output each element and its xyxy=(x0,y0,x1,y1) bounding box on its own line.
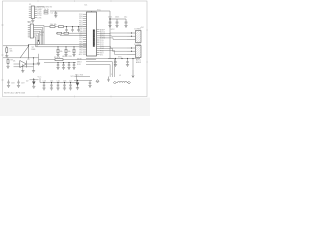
hanging cap 4 xyxy=(73,62,74,63)
bottom-left cap C19 xyxy=(17,80,19,86)
border frame xyxy=(3,1,148,97)
terminal block J3 xyxy=(136,31,142,43)
bottom-left cap C18 xyxy=(7,80,9,86)
svg-text:MISO: MISO xyxy=(77,61,82,63)
right rail wire xyxy=(108,58,140,60)
VCC wire xyxy=(74,79,92,81)
ground left cluster 1 xyxy=(22,64,24,71)
resistor R6 xyxy=(64,32,69,34)
net label text xyxy=(77,58,82,66)
J4 junction dots xyxy=(131,47,132,48)
test point diamond xyxy=(37,41,40,45)
wire VCC top xyxy=(50,10,110,12)
capacitor C12 xyxy=(89,80,91,85)
mid wire vertical left xyxy=(38,54,40,63)
polarized capacitor C11 xyxy=(76,80,79,85)
wire left top xyxy=(3,45,29,47)
hanging cap 1 xyxy=(57,62,58,63)
svg-text:C18: C18 xyxy=(11,83,14,85)
svg-text:10u: 10u xyxy=(124,17,127,19)
wire net top xyxy=(37,6,45,8)
U1 right pin stubs xyxy=(97,30,100,55)
svg-text:L1: L1 xyxy=(119,75,121,77)
svg-text:VCC: VCC xyxy=(71,76,76,78)
J3 wire from U1 xyxy=(100,33,128,39)
svg-text:1k 1k: 1k 1k xyxy=(44,9,49,11)
resistor R8 xyxy=(7,58,9,60)
J1 right pins xyxy=(35,7,37,18)
bus wire A xyxy=(36,44,87,46)
svg-text:NOTE: ALL CAPS 0603: NOTE: ALL CAPS 0603 xyxy=(4,92,26,95)
pullup row wire xyxy=(45,26,87,28)
bottom rail wire xyxy=(40,78,77,82)
svg-text:LED TX RX: LED TX RX xyxy=(62,56,72,58)
U1 internal part-name text (vertical) xyxy=(93,30,95,47)
svg-text:CTS: CTS xyxy=(37,17,42,19)
svg-text:AREF: AREF xyxy=(136,61,142,64)
resistor R9 xyxy=(55,59,63,61)
C1 ground xyxy=(54,16,57,18)
svg-text:C16: C16 xyxy=(63,80,66,82)
small comp right of caps xyxy=(107,77,109,83)
rail rise xyxy=(76,75,78,83)
svg-text:C19: C19 xyxy=(21,83,24,85)
J3 junction dots xyxy=(131,32,132,33)
svg-text:R8: R8 xyxy=(11,59,13,61)
svg-text:100n: 100n xyxy=(115,17,119,19)
antenna arrow xyxy=(132,70,134,78)
bottom cap 4 xyxy=(63,83,65,88)
capacitor C1 xyxy=(54,11,57,16)
right net stack text xyxy=(136,58,142,63)
pulldown dots xyxy=(57,46,58,47)
svg-text:XTL: XTL xyxy=(100,55,103,57)
cap drop 3 xyxy=(77,27,79,33)
connector J2 xyxy=(30,24,33,38)
wire cap rail xyxy=(110,18,126,20)
svg-text:R9 470: R9 470 xyxy=(54,57,60,59)
cap drop 2 xyxy=(71,27,73,33)
svg-text:VCC: VCC xyxy=(118,57,123,59)
U1 left pin label text xyxy=(79,14,84,56)
rail junction dots xyxy=(43,82,44,83)
connector J1 xyxy=(31,6,34,19)
rail dots xyxy=(115,58,116,59)
svg-text:C15: C15 xyxy=(57,80,60,82)
row2 wire xyxy=(56,32,87,34)
cap right 2 xyxy=(126,59,128,65)
J2 staircase wires xyxy=(34,26,45,47)
test point diamond 2 xyxy=(96,80,99,83)
svg-text:C14: C14 xyxy=(50,80,53,82)
wire vcc vertical bus xyxy=(109,11,111,59)
bottom cap 3 xyxy=(57,83,59,88)
pulldown network 2 xyxy=(65,47,67,49)
svg-text:SCL: SCL xyxy=(40,34,44,36)
pulldown network 1 xyxy=(57,47,59,49)
J3 wires xyxy=(127,33,136,39)
svg-text:VCC: VCC xyxy=(111,29,116,31)
capacitor C3 xyxy=(116,19,119,25)
mid lower wire xyxy=(44,62,76,64)
J4 wires xyxy=(127,48,136,54)
bottom cap labels text xyxy=(43,80,73,82)
J2 left pins xyxy=(28,26,30,37)
polarized capacitor C20 xyxy=(33,79,34,80)
resistor R1 xyxy=(44,11,48,12)
resistor R4 xyxy=(59,26,64,28)
wire left cluster low xyxy=(14,66,34,68)
pulldown network 3 xyxy=(73,47,75,49)
row3 wire xyxy=(60,34,87,36)
U1 top stub xyxy=(91,11,93,12)
J1 pin label text xyxy=(37,7,45,19)
junction node xyxy=(38,40,39,41)
resistor R2 xyxy=(44,13,48,14)
stub right xyxy=(132,59,134,71)
IC U1 xyxy=(87,12,97,56)
svg-text:10k: 10k xyxy=(10,51,13,53)
hanging cap 3 xyxy=(68,62,69,63)
junction on rail xyxy=(109,18,110,19)
ground under J1 xyxy=(32,19,34,21)
U1 left pin stubs xyxy=(83,14,87,54)
svg-text:VCC 3V3: VCC 3V3 xyxy=(75,75,83,77)
svg-text:D2: D2 xyxy=(26,81,28,83)
resistor R5 xyxy=(57,32,62,34)
wire to C20 xyxy=(30,79,39,81)
svg-text:C17: C17 xyxy=(69,80,72,82)
U1 right pin label text xyxy=(100,28,106,56)
svg-text:100n: 100n xyxy=(108,17,112,19)
cap right 1 xyxy=(114,59,116,65)
fuse L1 xyxy=(113,81,116,84)
left wire row 2 xyxy=(3,57,39,59)
svg-text:CONN2: CONN2 xyxy=(134,44,142,46)
svg-text:10k: 10k xyxy=(60,51,63,53)
Q1 wire to bus xyxy=(29,44,36,46)
J4 wire from U1 xyxy=(100,46,128,54)
terminal block J4 xyxy=(136,46,142,58)
resistor R3 xyxy=(50,26,55,28)
svg-text:10k 10k: 10k 10k xyxy=(50,24,57,26)
bottom cap 2 xyxy=(50,83,52,88)
left cluster vertical wire xyxy=(33,58,35,71)
ground left cluster 2 xyxy=(32,71,35,73)
svg-text:ATMEGA328P: ATMEGA328P xyxy=(93,31,96,47)
bus wire B xyxy=(36,46,87,48)
svg-text:C13: C13 xyxy=(43,80,46,82)
svg-text:10k: 10k xyxy=(68,51,71,53)
net wires below U1 xyxy=(86,59,115,77)
cap value text xyxy=(108,17,127,19)
bottom cap 5 xyxy=(69,83,71,88)
VCC row line xyxy=(75,76,91,78)
junction dots row xyxy=(66,26,67,27)
transistor Q1 xyxy=(20,44,29,59)
svg-text:MOSI: MOSI xyxy=(77,58,82,60)
D1 wires xyxy=(14,63,41,65)
bottom cap 1 xyxy=(43,83,45,88)
mid wire with resistor R9 xyxy=(39,59,97,61)
svg-text:D1: D1 xyxy=(13,61,15,63)
cap drop 1 xyxy=(65,27,67,33)
capacitor C2 xyxy=(109,19,112,25)
capacitor C4 xyxy=(125,19,128,25)
J1 left pins xyxy=(29,7,31,18)
left resistor R7 xyxy=(6,46,8,48)
diode D1 xyxy=(20,61,27,68)
hanging cap 2 xyxy=(63,62,64,63)
